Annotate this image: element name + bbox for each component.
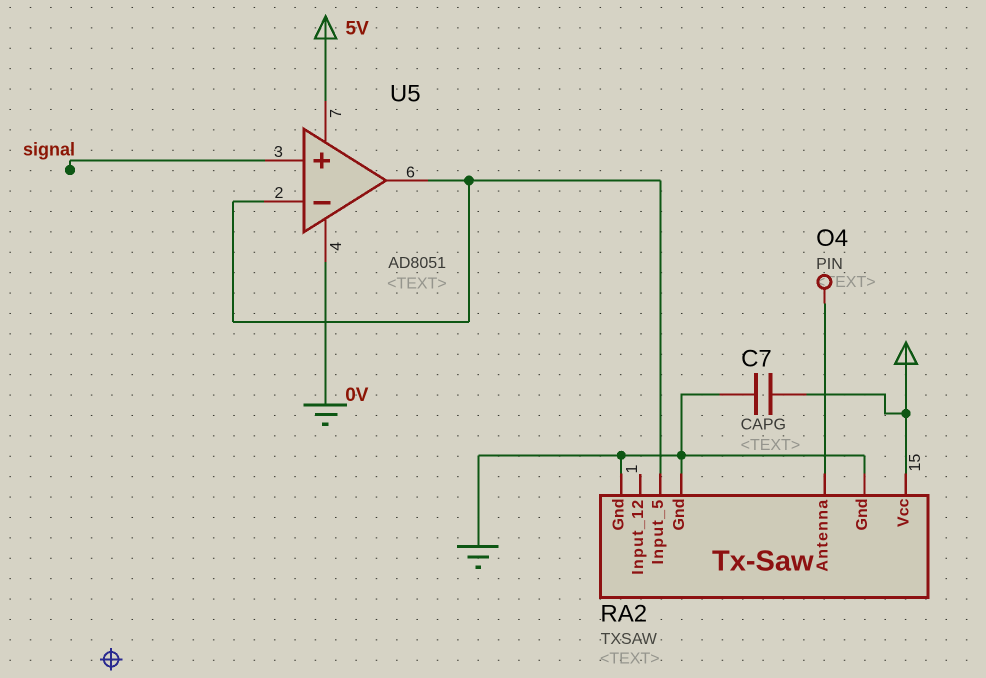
- svg-text:7: 7: [328, 109, 345, 118]
- node signal terminal dot: [65, 165, 75, 175]
- O4 pin stub: [823, 290, 825, 304]
- ground 0V symbol: [304, 405, 348, 424]
- svg-text:Gnd: Gnd: [671, 499, 688, 531]
- terminal O4 pin circle: [818, 275, 831, 288]
- wire gnd3 corner: [864, 455, 866, 474]
- wire output down to Input_5: [660, 181, 662, 475]
- op-amp U1 triangle body: [304, 129, 386, 232]
- wire output horizontal: [428, 180, 661, 182]
- svg-text:3: 3: [274, 144, 283, 161]
- block pin Gnd 6 stub: [863, 474, 865, 497]
- svg-text:Tx-Saw: Tx-Saw: [712, 546, 814, 578]
- op-amp minus symbol: [314, 201, 331, 205]
- wire pin 4 down to ground: [325, 262, 327, 405]
- wire O4 down to Antenna: [824, 303, 826, 474]
- svg-text:CAPG: CAPG: [741, 416, 786, 433]
- block pin Gnd 4 stub: [680, 474, 682, 497]
- node output junction dot: [464, 176, 474, 186]
- svg-text:5V: 5V: [346, 18, 370, 39]
- wire pin 2 horizontal: [233, 201, 264, 203]
- svg-text:RA2: RA2: [600, 601, 647, 628]
- component RA2 Tx-Saw block body: [601, 496, 929, 598]
- svg-text:PIN: PIN: [816, 256, 843, 273]
- wire gnd pin 4 stub: [680, 455, 682, 474]
- svg-text:6: 6: [406, 165, 415, 182]
- power VCC arrow symbol: [895, 343, 916, 474]
- svg-text:C7: C7: [741, 346, 772, 373]
- power 5V arrow symbol: [315, 17, 336, 102]
- wire signal to op-amp pin 3: [70, 160, 265, 162]
- svg-text:15: 15: [907, 454, 924, 472]
- svg-text:<TEXT>: <TEXT>: [600, 651, 660, 668]
- svg-text:Gnd: Gnd: [854, 499, 871, 531]
- svg-text:Vcc: Vcc: [895, 498, 912, 527]
- op-amp plus symbol: [314, 153, 330, 169]
- wire C7 left lead to corner: [681, 394, 719, 455]
- wire feedback bottom horizontal: [233, 321, 469, 323]
- svg-text:U5: U5: [390, 80, 421, 107]
- svg-text:2: 2: [275, 185, 284, 202]
- block pin Input_5 stub: [659, 474, 661, 497]
- svg-text:<TEXT>: <TEXT>: [387, 275, 447, 292]
- svg-text:Input_5: Input_5: [650, 499, 667, 565]
- origin marker crosshair: [100, 648, 123, 671]
- wire feedback left vertical: [232, 202, 234, 323]
- block pin Input_12 stub: [639, 474, 641, 496]
- wire C7 right lead to vcc net: [807, 394, 906, 413]
- svg-text:4: 4: [328, 242, 345, 251]
- block pin Vcc stub: [905, 474, 907, 497]
- C7 left lead: [720, 393, 755, 395]
- pin 4 stub: [325, 219, 327, 263]
- wire gnd pin 1 stub: [620, 455, 622, 474]
- wire feedback right vertical: [468, 181, 470, 323]
- svg-text:AD8051: AD8051: [388, 255, 446, 272]
- svg-text:signal: signal: [23, 139, 75, 159]
- pin 2 stub: [264, 201, 304, 203]
- ground symbol lower: [457, 547, 498, 568]
- svg-text:Input_12: Input_12: [630, 499, 647, 575]
- block pin Gnd 1 stub: [620, 474, 622, 497]
- wire signal terminal stub: [69, 161, 71, 171]
- svg-text:<TEXT>: <TEXT>: [741, 437, 801, 454]
- block pin Antenna stub: [824, 474, 826, 497]
- pin 6 stub: [386, 180, 428, 182]
- svg-text:TXSAW: TXSAW: [601, 631, 658, 648]
- node gnd junction dot 1: [617, 451, 626, 460]
- node vcc junction dot: [901, 409, 910, 418]
- svg-text:Gnd: Gnd: [611, 499, 628, 531]
- svg-text:0V: 0V: [345, 385, 369, 406]
- wire ground bus left down: [477, 455, 479, 546]
- node gnd junction dot 2: [677, 451, 686, 460]
- pin 3 stub: [265, 160, 304, 162]
- svg-text:1: 1: [624, 465, 641, 474]
- capacitor C7 plates: [756, 373, 770, 415]
- wire ground bus horizontal: [478, 454, 864, 456]
- C7 right lead: [772, 393, 806, 395]
- svg-text:Antenna: Antenna: [814, 499, 831, 572]
- pin 7 stub: [325, 101, 327, 143]
- svg-text:O4: O4: [816, 225, 848, 252]
